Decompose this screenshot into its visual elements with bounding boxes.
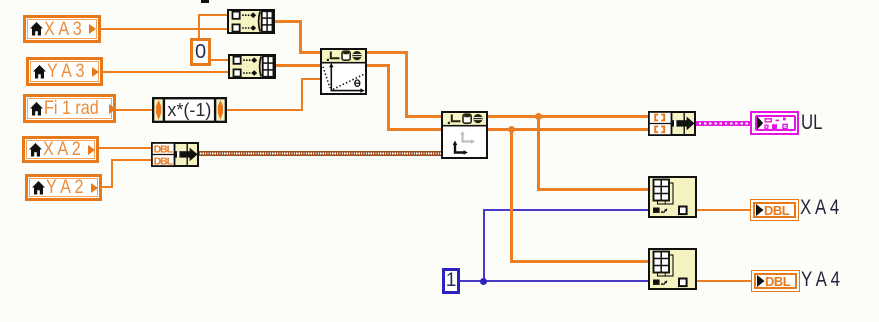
indicator Y A 4 (DBL)	[751, 270, 800, 292]
build array node 1	[227, 9, 275, 39]
wire translate VI out X to bundle 2	[487, 115, 649, 118]
indicator UL (cluster)	[750, 111, 799, 135]
label Y A 4	[801, 269, 840, 290]
index array node 2	[648, 248, 697, 295]
index array node 1	[648, 176, 697, 223]
wire build array 2 to rotate VI (array Y)	[275, 64, 321, 67]
wire Y A 2 to bundle	[100, 186, 113, 188]
svg-text:DBL: DBL	[154, 144, 174, 156]
constant 0	[190, 38, 211, 66]
wire expression node to rotate VI angle input	[226, 109, 303, 111]
build array node 2	[228, 54, 276, 84]
rotate VI	[320, 48, 367, 100]
terminal Y A 2	[25, 174, 102, 201]
junction lower branch	[508, 126, 515, 133]
wire bundle 2 to UL indicator (magenta dashed)	[696, 121, 751, 126]
bundle node 2 (arrays)	[648, 111, 696, 141]
bundle node 1 (DBL)	[151, 142, 199, 172]
svg-text:x*(-1): x*(-1)	[167, 100, 211, 120]
cut-off label fragment top	[201, 0, 209, 3]
wire Y A 3 to build array 2	[103, 71, 228, 73]
junction blue	[480, 278, 487, 285]
wire X A 3 to build array 1	[101, 28, 227, 30]
wire branch down to index array 2	[510, 128, 513, 263]
wire 0 constant to build array 2	[209, 59, 228, 61]
terminal X A 3	[23, 15, 101, 43]
wire rotate VI out X to translate VI	[366, 51, 408, 54]
blue wire 1 constant to index array 2 index input	[459, 280, 649, 282]
wire index array 2 to Y A 4 indicator	[696, 280, 752, 282]
wire branch down to index array 1	[537, 115, 540, 190]
terminal Fi 1 rad	[23, 94, 116, 123]
label X A 4	[800, 197, 839, 218]
wire index array 1 to X A 4 indicator	[696, 209, 752, 211]
blue wire branch up to index array 1 index input	[483, 209, 485, 281]
terminal X A 2	[22, 136, 99, 163]
indicator X A 4 (DBL)	[750, 199, 799, 221]
translate VI	[441, 111, 488, 164]
constant 1	[442, 268, 460, 294]
wire Fi 1 rad to expression node	[114, 109, 152, 111]
expression node x*(-1)	[152, 97, 227, 128]
wire cluster bundle 1 to translate VI (brown dotted)	[199, 151, 442, 156]
label UL	[801, 112, 822, 133]
wire translate VI out Y to bundle 2	[487, 128, 649, 131]
svg-text:DBL: DBL	[154, 155, 174, 167]
wire rotate VI out Y to translate VI	[366, 64, 390, 67]
wire 0 constant up to build array 1	[198, 14, 200, 38]
junction upper branch	[535, 113, 542, 120]
wire X A 2 to bundle	[99, 147, 151, 149]
terminal Y A 3	[26, 57, 103, 86]
wire build array 1 to rotate VI (array X)	[274, 20, 302, 23]
